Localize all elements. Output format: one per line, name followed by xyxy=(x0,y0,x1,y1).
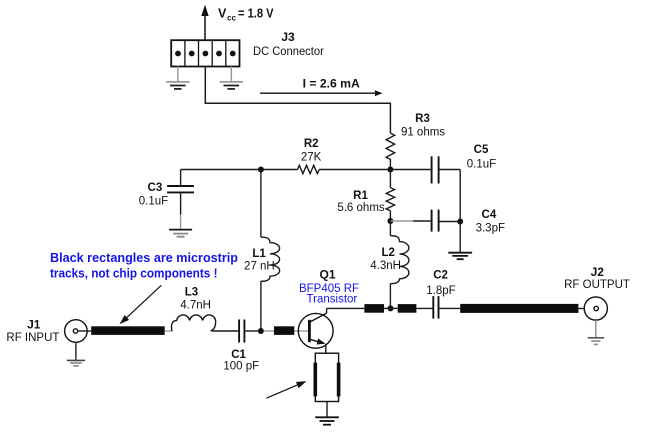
microstrip emitter (outlined with side bars) xyxy=(314,353,341,401)
svg-text:R3: R3 xyxy=(415,113,430,125)
collector wire xyxy=(327,307,365,309)
resistor R2 xyxy=(298,165,320,173)
wire J3 feed down and right to R3 rail xyxy=(205,67,390,134)
inductor L1 xyxy=(261,237,280,281)
connector J1 xyxy=(65,320,92,343)
annotation arrow to emitter microstrip xyxy=(266,381,306,398)
svg-text:V: V xyxy=(218,6,227,20)
R3 label xyxy=(401,113,445,139)
svg-text:DC Connector: DC Connector xyxy=(253,46,324,58)
ground J3 right (gray) xyxy=(220,67,243,89)
capacitor C4 xyxy=(390,210,460,232)
svg-text:Transistor: Transistor xyxy=(307,293,358,305)
node R2/R3/R1/C5 xyxy=(387,167,393,173)
svg-text:L3: L3 xyxy=(185,287,198,299)
ground J1 xyxy=(67,342,85,366)
C2 label xyxy=(426,270,455,297)
J1 label xyxy=(6,317,59,343)
wire to C2 xyxy=(416,307,432,309)
svg-text:L1: L1 xyxy=(252,248,266,260)
svg-text:C3: C3 xyxy=(148,182,163,194)
current arrow I=2.6mA xyxy=(260,90,383,96)
node R1/C4/L2 xyxy=(387,218,393,224)
svg-text:3.3pF: 3.3pF xyxy=(476,223,505,235)
svg-text:C1: C1 xyxy=(231,349,246,361)
annotation blue text xyxy=(50,250,238,281)
capacitor C5 xyxy=(390,156,460,183)
capacitor C3 xyxy=(167,170,194,215)
microstrip base track xyxy=(274,326,294,335)
J3 DC connector block xyxy=(171,40,239,66)
wire R2 to rail xyxy=(319,169,390,171)
microstrip collector left xyxy=(364,304,384,313)
svg-text:C5: C5 xyxy=(474,144,489,156)
transistor Q1 xyxy=(298,308,333,353)
wire L1 down to C1 node xyxy=(260,281,262,331)
node C1/L1 xyxy=(258,328,264,334)
svg-text:100 pF: 100 pF xyxy=(223,361,259,373)
ground C3 xyxy=(169,215,192,237)
R1 label xyxy=(337,190,385,214)
Vcc label xyxy=(218,6,274,22)
svg-text:L2: L2 xyxy=(381,247,394,259)
wire R2 row xyxy=(181,169,298,171)
node C4/C5 right xyxy=(457,219,463,225)
svg-text:0.1uF: 0.1uF xyxy=(139,196,168,208)
svg-text:tracks, not chip components !: tracks, not chip components ! xyxy=(50,266,218,281)
J2 label xyxy=(564,265,630,291)
capacitor C2 xyxy=(433,296,460,319)
L2 label xyxy=(370,247,401,272)
ground J2 (gray) xyxy=(588,320,604,344)
resistor R3 xyxy=(386,133,395,166)
ground J3 left (gray) xyxy=(166,67,189,89)
inductor L3 xyxy=(171,315,215,331)
wire to J2 xyxy=(578,308,593,310)
svg-text:1.8pF: 1.8pF xyxy=(426,285,455,297)
capacitor C1 xyxy=(239,320,261,343)
svg-text:R1: R1 xyxy=(353,190,368,202)
wire stub gray xyxy=(165,330,173,332)
wire gray microstrip to base xyxy=(294,330,308,332)
svg-text:J3: J3 xyxy=(281,30,295,44)
wire xyxy=(383,307,398,309)
svg-text:5.6 ohms: 5.6 ohms xyxy=(337,202,385,214)
svg-text:cc: cc xyxy=(227,14,236,23)
svg-text:J1: J1 xyxy=(27,317,41,331)
C4 label xyxy=(476,209,505,235)
svg-text:I = 2.6 mA: I = 2.6 mA xyxy=(303,76,361,90)
svg-text:RF OUTPUT: RF OUTPUT xyxy=(564,279,630,291)
svg-text:91 ohms: 91 ohms xyxy=(401,127,445,139)
svg-text:0.1uF: 0.1uF xyxy=(467,159,496,171)
microstrip output track xyxy=(460,304,578,313)
R2 label xyxy=(301,138,322,163)
svg-text:C4: C4 xyxy=(482,209,497,221)
svg-text:Q1: Q1 xyxy=(319,268,335,282)
inductor L2 xyxy=(390,221,409,308)
microstrip collector right xyxy=(398,304,417,313)
Q1 label xyxy=(299,268,359,306)
svg-text:27K: 27K xyxy=(301,151,322,163)
C3 label xyxy=(139,182,168,208)
connector J2 xyxy=(584,297,607,320)
svg-text:27 nH: 27 nH xyxy=(244,260,275,272)
ground emitter xyxy=(315,402,339,425)
svg-text:4.3nH: 4.3nH xyxy=(370,260,401,272)
svg-text:Black rectangles are microstri: Black rectangles are microstrip xyxy=(50,250,238,265)
node left rail xyxy=(258,167,264,173)
resistor R1 xyxy=(386,170,394,222)
Vcc arrow xyxy=(201,5,208,40)
L3 label xyxy=(180,287,211,312)
svg-text:RF INPUT: RF INPUT xyxy=(6,332,59,344)
annotation arrow to input microstrip xyxy=(120,285,162,324)
node collector/L2 xyxy=(388,305,394,311)
svg-text:J2: J2 xyxy=(591,265,605,279)
wire L3 to C1 xyxy=(212,330,238,332)
J3 label xyxy=(253,30,324,58)
svg-text:C2: C2 xyxy=(433,270,448,282)
L1 label xyxy=(244,248,275,272)
microstrip input track xyxy=(91,326,165,335)
svg-text:4.7nH: 4.7nH xyxy=(180,299,211,311)
C1 label xyxy=(223,349,259,373)
wire node down to L1 xyxy=(260,170,262,238)
wire stub gray to base microstrip xyxy=(264,330,275,332)
ground C4 node xyxy=(448,222,472,260)
svg-text:= 1.8 V: = 1.8 V xyxy=(238,6,274,20)
svg-text:R2: R2 xyxy=(304,138,319,150)
wire C5 right rail down xyxy=(459,170,461,222)
C5 label xyxy=(467,144,496,171)
